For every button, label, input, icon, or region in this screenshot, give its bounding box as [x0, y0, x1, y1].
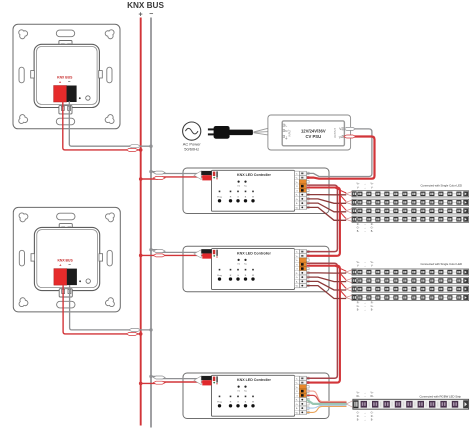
svg-text:→: →: [364, 391, 366, 394]
svg-text:→: →: [364, 395, 366, 398]
wire: plug cord conductors to PSU input: [254, 125, 282, 137]
svg-text:V-: V-: [371, 186, 373, 189]
svg-text:KNX BUS: KNX BUS: [127, 1, 164, 10]
wall switch panel SW1: [13, 24, 120, 129]
power supply unit 12V/24V/36V CV PSU: [268, 115, 351, 150]
svg-text:B-: B-: [371, 308, 374, 311]
strip wiring labels below: [357, 301, 374, 311]
AC power source symbol: [183, 122, 202, 151]
junction dot: SW2 + on red bus: [139, 332, 143, 336]
wall switch panel SW2: [13, 207, 120, 312]
wire: PSU V- (gray) to controller U1: [307, 129, 372, 177]
wire: V+ daisy chain to next controller (red): [307, 266, 340, 383]
U2 KNX terminal black block: [201, 249, 211, 253]
wire: U2 V+ feed to strip 4: [340, 290, 346, 296]
PSU V+ output ferrule: [344, 135, 356, 138]
strip connector flare 3: [346, 208, 353, 213]
strip wiring labels above: [357, 183, 375, 190]
wire: U2 V+ feed to strip 2: [340, 273, 346, 279]
junction dot: U1 + on red bus: [139, 177, 143, 181]
wire: V+ daisy chain to next controller (red): [307, 188, 340, 256]
PSU V- output ferrule: [344, 127, 356, 130]
wire: U3 B output (blue): [307, 405, 347, 408]
single color LED strip 3: [352, 208, 469, 214]
svg-text:B-: B-: [371, 230, 374, 233]
strip connector flare 3: [346, 287, 353, 292]
RGBW strip wiring labels below: [357, 411, 374, 421]
wire: U1 V+ feed to strip 2: [340, 195, 346, 201]
svg-text:⏚: ⏚: [285, 135, 288, 140]
SW1 cable ferrule on gray wire: [129, 145, 141, 148]
wire: U1 V+ feed to strip 4: [340, 212, 346, 218]
svg-text:V-: V-: [357, 186, 359, 189]
svg-text:V-: V-: [357, 265, 359, 268]
strip wiring labels below: [357, 223, 374, 233]
wire: SW1 KNX - (gray) to bus: [69, 101, 150, 146]
svg-text:OUTPUT: OUTPUT: [334, 128, 337, 138]
wire: SW1 KNX + (red) to bus: [63, 101, 140, 150]
single color LED strip 5: [352, 269, 469, 275]
wire: U2 channel 4 output to LED strip: [307, 286, 346, 299]
svg-text:B-: B-: [357, 230, 360, 233]
wire: bus + (red) to controller U2 KNX input: [141, 254, 203, 256]
single color LED strip 2: [352, 199, 469, 205]
single color LED strip 8: [352, 294, 469, 300]
svg-text:B-: B-: [357, 418, 360, 421]
junction dot: SW1 + on red bus: [139, 148, 143, 152]
wire: U1 channel 3 output to LED strip: [307, 203, 346, 212]
SW1 cable ferrule on red wire: [126, 148, 138, 151]
strip connector flare 1: [346, 270, 353, 275]
svg-text:→: →: [364, 261, 366, 264]
SW2 cable ferrule on red wire: [126, 332, 138, 335]
RGBW strip connector flare: [346, 400, 353, 407]
wire: U2 channel 2 output to LED strip: [307, 277, 346, 282]
junction dot: SW1 - on gray bus: [149, 145, 152, 148]
wire: KNX bus - line (gray): [150, 18, 152, 428]
SW2 cable ferrule on gray wire: [129, 328, 141, 331]
wire: U3 G output (teal ribbon): [307, 400, 347, 404]
svg-text:12V/24V/36V: 12V/24V/36V: [301, 129, 326, 134]
wire: U2 channel 3 output to LED strip: [307, 281, 346, 290]
wire: PSU V+ (red) to controller U1: [307, 137, 375, 179]
wire: U3 R output (red): [307, 395, 347, 402]
svg-text:−: −: [149, 11, 153, 18]
strip connector flare 4: [346, 295, 353, 300]
cable ferrule on U1 gray drop: [153, 171, 165, 174]
wire: U1 channel 4 output to LED strip: [307, 207, 346, 220]
svg-text:→: →: [364, 186, 366, 189]
single color LED strip 1: [352, 191, 469, 197]
svg-text:B-: B-: [357, 308, 360, 311]
wire: U3 V+ output (pink): [307, 391, 347, 401]
strip connector flare 2: [346, 200, 353, 205]
junction dot: U2 - on gray bus: [149, 248, 152, 251]
single color LED strip 7: [352, 286, 469, 292]
junction dot: U3 - on gray bus: [149, 375, 152, 378]
junction dot: U3 + on red bus: [139, 382, 143, 386]
strip wiring labels above: [357, 261, 375, 268]
wire: U2 channel 1 output to LED strip: [307, 272, 346, 274]
RGBW LED strip: [353, 399, 469, 409]
svg-text:N: N: [285, 129, 287, 133]
svg-text:Connected with Single Color LE: Connected with Single Color LED: [420, 184, 462, 188]
KNX LED controller U1: [183, 168, 329, 214]
cable ferrule on U1 red drop: [153, 176, 165, 179]
KNX LED controller U2: [183, 246, 329, 292]
single color LED strip 6: [352, 277, 469, 283]
wire: V- daisy chain to next controller (dark red): [307, 185, 338, 252]
wire: bus - (gray) to controller U2 KNX input: [151, 250, 202, 253]
cable ferrule on U3 red drop: [153, 381, 165, 384]
junction dot: U2 + on red bus: [139, 254, 143, 258]
svg-text:V-: V-: [371, 265, 373, 268]
U1 KNX terminal red block: [202, 175, 211, 180]
svg-text:Connected with RGBW LED Strip: Connected with RGBW LED Strip: [419, 394, 461, 398]
svg-text:→: →: [364, 183, 366, 186]
wire: bus - (gray) to controller U1 KNX input: [151, 172, 202, 174]
wire: KNX bus + line (red): [140, 18, 142, 426]
cable ferrule on U3 gray drop: [153, 376, 165, 379]
U3 KNX terminal red block: [202, 380, 211, 385]
svg-text:→: →: [364, 230, 366, 233]
svg-text:CV PSU: CV PSU: [306, 134, 322, 139]
svg-text:→: →: [364, 308, 366, 311]
svg-text:50/60Hz: 50/60Hz: [184, 146, 199, 151]
wire: U1 V+ feed to strip 3: [340, 203, 346, 209]
wire: U1 channel 2 output to LED strip: [307, 199, 346, 203]
wire: U2 V+ feed to strip 1: [334, 266, 346, 271]
U2 KNX terminal red block: [202, 253, 211, 258]
wire: SW2 KNX + (red) to bus: [63, 285, 139, 334]
cable flare at U3 KNX connector: [194, 376, 201, 385]
svg-text:B-: B-: [371, 418, 374, 421]
cable ferrule on U2 red drop: [153, 254, 165, 257]
wire: U3 W output (orange): [307, 406, 347, 412]
wire: U1 V+ feed to strip 1: [334, 188, 346, 193]
junction dot: U1 - on gray bus: [149, 170, 152, 173]
wire: bus + (red) to controller U1 KNX input: [141, 177, 203, 179]
wire: U2 V+ feed to strip 3: [340, 282, 346, 288]
wire: bus - (gray) to controller U3 KNX input: [151, 376, 202, 378]
wire: SW2 KNX - (gray) to bus: [70, 285, 150, 330]
single color LED strip 4: [352, 216, 469, 222]
junction dot: SW2 - on gray bus: [149, 328, 152, 331]
svg-text:→: →: [364, 265, 366, 268]
svg-text:→: →: [364, 418, 366, 421]
svg-text:+: +: [139, 11, 143, 18]
wire: bus + (red) to controller U3 KNX input: [141, 382, 203, 383]
U1 KNX terminal black block: [201, 171, 211, 175]
U3 KNX terminal black block: [201, 376, 211, 380]
cable flare at U1 KNX connector: [194, 171, 201, 180]
wire: U1 channel 1 output to LED strip: [307, 194, 346, 196]
KNX LED controller U3: [183, 373, 329, 419]
cable flare at U2 KNX connector: [194, 250, 201, 258]
svg-text:INPUT: INPUT: [289, 129, 292, 137]
RGBW strip wiring labels above: [356, 391, 374, 398]
AC power plug: [208, 126, 253, 139]
wire: V- daisy chain to next controller (dark red): [307, 263, 338, 378]
strip connector flare 4: [346, 217, 353, 222]
strip connector flare 2: [346, 278, 353, 283]
strip connector flare 1: [346, 192, 353, 197]
cable ferrule on U2 gray drop: [153, 250, 165, 253]
svg-text:Connected with Single Color LE: Connected with Single Color LED: [420, 262, 462, 266]
